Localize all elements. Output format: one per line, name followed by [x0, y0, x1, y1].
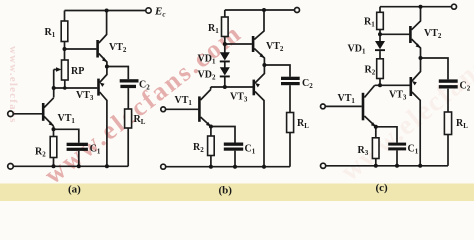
- resistor RL (c): [444, 112, 451, 135]
- diode VD1 (c) triangle: [375, 41, 385, 49]
- transistor VT1 (c) collector: [364, 85, 374, 97]
- svg-text:RP: RP: [71, 66, 84, 77]
- junction dot RP bottom (a): [63, 86, 67, 90]
- transistor VT1 (a) emitter arrow: [49, 121, 54, 126]
- wire VD2 bottom to node (b): [224, 77, 226, 87]
- junction dot wiper node (a): [52, 86, 56, 90]
- wire R3 bottom stub (c): [375, 159, 377, 166]
- junction dot diode top node (b): [223, 42, 227, 46]
- transistor VT3 (b) base bar: [253, 80, 256, 96]
- junction dot R2 bottom rail (b): [209, 165, 213, 169]
- transistor VT3 (a) collector: [100, 92, 107, 166]
- junction dot VT3 collector rail (c): [418, 164, 422, 168]
- transistor VT1 (b) emitter arrow: [206, 122, 211, 127]
- transistor VT2 (b) emitter arrow: [260, 53, 265, 58]
- junction dot R1 bottom node (c): [378, 32, 382, 36]
- capacitor C1 (a) top plate: [67, 143, 88, 146]
- wire C2 to RL (c): [447, 89, 449, 112]
- wire diode node row to VT3 base (b): [211, 86, 253, 88]
- wire R1 top stub (a): [64, 11, 66, 22]
- svg-text:(b): (b): [219, 185, 233, 197]
- transistor VT2 (c) emitter arrow: [416, 43, 421, 48]
- transistor VT2 (b) emitter: [254, 49, 264, 66]
- transistor VT2 (a) base bar: [96, 40, 99, 58]
- wire bottom rail (a): [13, 165, 128, 167]
- wire emitter node to R3 (c): [375, 127, 377, 138]
- wire top rail (b): [225, 9, 295, 11]
- wire VT2 collector (a): [99, 11, 107, 44]
- diode VD2 (b) cathode bar: [220, 76, 230, 78]
- capacitor C2 (c) top plate: [439, 79, 458, 82]
- resistor RP (a): [62, 60, 69, 80]
- capacitor C2 (b) bottom plate: [281, 82, 300, 85]
- terminal input (c): [321, 104, 326, 109]
- wire output node to C2 (c): [421, 58, 449, 79]
- terminal bottom left (c): [321, 163, 326, 168]
- svg-text:(a): (a): [68, 184, 81, 196]
- terminal top (c): [452, 4, 457, 9]
- transistor VT3 (c) emitter: [412, 58, 421, 81]
- transistor VT2 (c) base bar: [409, 26, 412, 43]
- junction dot R2 bottom node (c): [378, 83, 382, 87]
- wire node row to VT3 base (a): [54, 87, 98, 89]
- wire R1 bottom to RP (a): [64, 42, 66, 61]
- wire R1 top stub (c): [379, 7, 381, 13]
- wire emitter node to C1 (b): [211, 127, 235, 143]
- transistor VT1 (a) collector: [44, 98, 54, 108]
- wire bottom rail (b): [166, 166, 291, 168]
- junction dot C1 bottom rail (b): [233, 165, 237, 169]
- junction dot VT2 collector top (c): [419, 5, 423, 9]
- junction dot R3 bottom rail (c): [374, 164, 378, 168]
- wire VT2 collector (c): [412, 7, 421, 30]
- transistor VT3 (a) emitter arrow: [100, 83, 105, 87]
- wire node to VT2 base (b): [225, 43, 252, 45]
- wire R1 top stub (b): [224, 10, 226, 17]
- junction dot VT1 emitter (b): [209, 125, 213, 129]
- junction dot diode bottom node (b): [223, 85, 227, 89]
- wire RL bottom stub (c): [447, 135, 449, 166]
- capacitor C2 (a) bottom plate: [120, 85, 136, 88]
- junction dot C1 bottom rail (c): [395, 164, 399, 168]
- wire bottom rail (c): [326, 165, 449, 167]
- yellow bottom band: [0, 184, 474, 202]
- wire C2 to RL (b): [289, 85, 291, 112]
- transistor VT1 (b) base bar: [198, 96, 201, 121]
- junction dot C1 bottom rail (a): [77, 164, 81, 168]
- wire node row to VT3 base (c): [375, 84, 410, 86]
- transistor VT2 (a) emitter arrow: [102, 57, 107, 62]
- transistor VT3 (c) collector: [412, 92, 420, 166]
- wire top rail (a): [65, 10, 147, 12]
- wire RL bottom stub (b): [289, 133, 291, 167]
- resistor R1 (a): [61, 21, 68, 42]
- wire C2 to RL (a): [127, 88, 129, 109]
- wire VT1 base lead (c): [325, 105, 362, 107]
- wire emitter node to R2 (a): [53, 129, 55, 136]
- wire node to VT2 base (c): [380, 33, 409, 35]
- resistor R2 (b): [208, 136, 215, 156]
- capacitor C2 (b) top plate: [281, 77, 300, 80]
- transistor VT1 (b) collector: [201, 90, 211, 101]
- resistor R1 (b): [222, 17, 229, 37]
- wire VT2 collector (b): [254, 10, 264, 40]
- junction dot VT1 emitter (a): [52, 127, 56, 131]
- capacitor C1 (b) bottom plate: [224, 148, 243, 151]
- terminal bottom left (a): [8, 164, 14, 170]
- junction dot VT2 collector top (b): [262, 8, 266, 12]
- resistor R2 (c): [377, 59, 384, 79]
- junction dot R1-RP node (a): [63, 47, 67, 51]
- RP wiper arrowhead (a): [56, 67, 62, 72]
- wire top rail (c): [380, 6, 452, 8]
- capacitor C2 (c) bottom plate: [439, 85, 458, 88]
- junction dot VT1 emitter (c): [374, 125, 378, 129]
- capacitor C1 (c) top plate: [388, 143, 406, 146]
- transistor VT3 (c) base bar: [410, 77, 413, 96]
- wire R1 bottom to VD1 (c): [379, 30, 381, 42]
- terminal Ec (a): [146, 8, 151, 13]
- junction dot output node (c): [419, 56, 423, 60]
- diode VD2 (b) triangle: [220, 67, 230, 75]
- wire VT1 collector stub (b): [210, 87, 212, 90]
- transistor VT1 (a) emitter: [44, 117, 53, 127]
- wire VD1 bottom to R2 (c): [379, 51, 381, 59]
- transistor VT2 (c) emitter: [412, 39, 421, 58]
- wire RP wiper arm (a): [54, 69, 58, 71]
- transistor VT3 (a) base bar: [97, 79, 100, 96]
- wire VT1 emitter to node (a): [53, 126, 55, 129]
- transistor VT1 (c) base bar: [362, 93, 365, 121]
- wire VT1 base lead (a): [13, 113, 42, 115]
- wire R2 bottom stub (b): [210, 156, 212, 167]
- wire wiper vertical and VT1 collector vertical (a): [53, 70, 55, 98]
- capacitor C1 (b) top plate: [224, 143, 243, 146]
- junction dot VT2 collector top (a): [105, 9, 109, 13]
- transistor VT1 (c) emitter arrow: [371, 122, 376, 127]
- wire R1 bottom to VD1 (b): [224, 37, 226, 53]
- diode VD1 (c) cathode bar: [375, 49, 385, 51]
- transistor VT1 (b) emitter: [201, 117, 211, 127]
- transistor VT3 (a) emitter: [100, 67, 107, 83]
- transistor VT2 (a) emitter: [99, 54, 107, 67]
- capacitor C2 (a) top plate: [120, 79, 139, 82]
- wire C1 bottom stub (b): [234, 151, 236, 167]
- wire R2 bottom stub (a): [53, 158, 55, 167]
- resistor R1 (c): [377, 12, 384, 29]
- wire RP bottom stub (a): [64, 80, 66, 88]
- wire VD1-VD2 link (b): [224, 62, 226, 68]
- transistor VT3 (c) emitter arrow: [412, 81, 417, 85]
- wire VT1 base lead (b): [166, 108, 199, 110]
- transistor VT1 (c) emitter: [364, 116, 375, 127]
- junction dot VT3 collector rail (a): [105, 164, 109, 168]
- transistor VT3 (b) emitter: [255, 65, 264, 83]
- wire RL bottom stub (a): [127, 128, 129, 166]
- capacitor C1 (c) bottom plate: [388, 147, 406, 150]
- resistor R2 (a): [50, 137, 57, 158]
- terminal top (b): [295, 8, 300, 13]
- wire emitter node to C1 (c): [376, 127, 397, 143]
- wire C1 bottom stub (a): [78, 151, 80, 166]
- terminal input (b): [161, 107, 166, 112]
- terminal input (a): [8, 111, 14, 117]
- wire output node to C2 (a): [107, 67, 128, 80]
- transistor VT3 (b) collector: [255, 92, 264, 167]
- wire output node to C2 (b): [264, 65, 290, 77]
- transistor VT2 (b) base bar: [252, 36, 255, 52]
- capacitor C1 (a) bottom plate: [67, 148, 88, 151]
- junction dot output node (a): [105, 65, 109, 69]
- transistor VT3 (b) emitter arrow: [255, 83, 260, 87]
- resistor RL (a): [125, 109, 132, 128]
- junction dot output node (b): [262, 63, 266, 67]
- diode VD1 (b) cathode bar: [220, 61, 230, 63]
- wire R2 bottom to node (c): [379, 79, 381, 86]
- resistor RL (b): [287, 113, 294, 133]
- wire emitter node to R2 (b): [210, 127, 212, 137]
- resistor R3 (c): [372, 138, 379, 159]
- wire emitter node to C1 (a): [54, 129, 79, 142]
- svg-text:(c): (c): [376, 182, 389, 194]
- terminal bottom left (b): [161, 164, 166, 169]
- transistor VT1 (a) base bar: [42, 103, 45, 121]
- diode VD1 (b) triangle: [220, 52, 230, 60]
- junction dot R2 bottom rail (a): [52, 164, 56, 168]
- wire C1 bottom stub (c): [396, 151, 398, 166]
- junction dot VT3 collector rail (b): [262, 165, 266, 169]
- wire node to VT2 base (a): [65, 48, 97, 50]
